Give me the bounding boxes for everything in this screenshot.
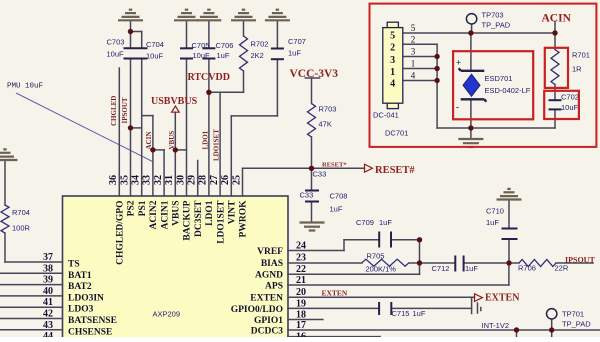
svg-text:CHGLED/GPO: CHGLED/GPO <box>116 201 126 265</box>
svg-text:1: 1 <box>390 67 395 78</box>
svg-text:R702: R702 <box>251 40 269 49</box>
svg-text:22R: 22R <box>555 264 569 273</box>
svg-text:CHSENSE: CHSENSE <box>68 327 112 337</box>
svg-text:1: 1 <box>411 59 416 69</box>
svg-text:20: 20 <box>296 287 306 298</box>
svg-text:IPSOUT: IPSOUT <box>565 256 595 265</box>
svg-text:43: 43 <box>43 320 53 331</box>
svg-text:-: - <box>456 102 459 112</box>
svg-text:10uF: 10uF <box>107 50 125 59</box>
svg-text:10uF: 10uF <box>193 51 211 60</box>
svg-text:TS: TS <box>68 260 80 270</box>
svg-text:41: 41 <box>43 297 53 308</box>
svg-text:RESET#: RESET# <box>375 165 415 176</box>
svg-text:39: 39 <box>43 275 53 286</box>
svg-text:37: 37 <box>43 252 53 263</box>
svg-text:DC-041: DC-041 <box>373 111 399 120</box>
svg-text:TP703: TP703 <box>482 11 504 20</box>
svg-text:4: 4 <box>411 71 416 81</box>
svg-text:AXP209: AXP209 <box>153 310 181 319</box>
svg-text:40: 40 <box>43 286 53 297</box>
svg-text:+: + <box>456 58 461 68</box>
svg-text:C710: C710 <box>486 207 504 216</box>
svg-text:LDO1: LDO1 <box>205 200 215 226</box>
svg-text:18: 18 <box>296 310 306 321</box>
svg-text:EXTEN: EXTEN <box>322 289 348 298</box>
svg-text:VINT: VINT <box>228 200 238 224</box>
svg-text:LDO1: LDO1 <box>202 130 210 149</box>
svg-text:R703: R703 <box>319 105 337 114</box>
svg-text:1uF: 1uF <box>379 218 392 227</box>
svg-text:CHGLED: CHGLED <box>110 96 118 126</box>
svg-text:1uF: 1uF <box>217 51 230 60</box>
svg-text:IPSOUT: IPSOUT <box>121 97 129 123</box>
svg-text:1uF: 1uF <box>288 49 301 58</box>
svg-text:34: 34 <box>131 175 142 185</box>
svg-text:ACIN: ACIN <box>542 13 572 25</box>
svg-text:C703: C703 <box>107 38 125 47</box>
svg-text:2: 2 <box>390 43 395 54</box>
svg-text:32: 32 <box>153 175 164 185</box>
svg-text:PWROK: PWROK <box>239 200 249 238</box>
svg-text:35: 35 <box>119 175 130 185</box>
svg-text:BACKUP: BACKUP <box>183 200 193 240</box>
svg-text:100R: 100R <box>12 224 31 233</box>
svg-text:EXTEN: EXTEN <box>250 294 283 304</box>
svg-text:BATSENSE: BATSENSE <box>68 316 117 326</box>
svg-text:ESD-0402-LF: ESD-0402-LF <box>485 86 531 95</box>
svg-text:R701: R701 <box>572 51 590 60</box>
svg-text:R705: R705 <box>367 252 385 261</box>
svg-text:PMU 10uF: PMU 10uF <box>7 83 43 91</box>
svg-text:DCDC3: DCDC3 <box>251 327 283 337</box>
svg-text:RESET*: RESET* <box>322 162 347 169</box>
svg-text:26: 26 <box>220 175 231 185</box>
svg-text:C704: C704 <box>146 40 164 49</box>
svg-text:21: 21 <box>296 275 306 286</box>
svg-text:47K: 47K <box>319 120 332 129</box>
svg-text:C712: C712 <box>432 264 450 273</box>
svg-text:LDO1SET: LDO1SET <box>216 200 226 244</box>
svg-text:1uF: 1uF <box>330 205 343 214</box>
svg-text:R704: R704 <box>12 208 30 217</box>
svg-text:10uF: 10uF <box>561 103 579 112</box>
svg-text:25: 25 <box>231 175 242 185</box>
svg-text:BAT2: BAT2 <box>68 282 92 292</box>
svg-text:27: 27 <box>209 175 220 185</box>
svg-text:1R: 1R <box>572 65 582 74</box>
svg-text:TP_PAD: TP_PAD <box>482 21 511 30</box>
svg-text:ACIN2: ACIN2 <box>149 200 159 229</box>
svg-text:33: 33 <box>142 175 153 185</box>
svg-text:EXTEN: EXTEN <box>485 293 520 304</box>
svg-text:16: 16 <box>296 331 306 337</box>
svg-text:C705: C705 <box>192 41 210 50</box>
svg-text:GPIO1: GPIO1 <box>254 316 283 326</box>
svg-text:10uF: 10uF <box>146 52 164 61</box>
svg-text:BIAS: BIAS <box>261 259 283 269</box>
svg-text:200K/1%: 200K/1% <box>366 265 397 274</box>
svg-text:AGND: AGND <box>255 271 283 281</box>
svg-text:C715: C715 <box>392 309 410 318</box>
svg-text:23: 23 <box>296 253 306 264</box>
svg-text:24: 24 <box>296 241 306 252</box>
svg-text:APS: APS <box>265 282 283 292</box>
svg-text:LDO3: LDO3 <box>68 305 94 315</box>
svg-text:R706: R706 <box>518 264 536 273</box>
svg-text:TP701: TP701 <box>562 310 584 319</box>
svg-text:USBVBUS: USBVBUS <box>151 96 198 107</box>
svg-text:PS1: PS1 <box>138 200 148 216</box>
svg-text:1uF: 1uF <box>465 264 478 273</box>
svg-text:VBUS: VBUS <box>172 201 182 226</box>
svg-text:C33: C33 <box>300 191 314 200</box>
svg-text:1uF: 1uF <box>413 309 426 318</box>
svg-text:19: 19 <box>296 298 306 309</box>
svg-text:28: 28 <box>198 175 209 185</box>
svg-text:42: 42 <box>43 309 53 320</box>
svg-text:3: 3 <box>411 47 416 57</box>
svg-text:36: 36 <box>108 175 119 185</box>
svg-text:BAT1: BAT1 <box>68 271 92 281</box>
svg-text:3: 3 <box>390 55 395 66</box>
svg-text:PS2: PS2 <box>127 200 137 216</box>
svg-text:38: 38 <box>43 263 53 274</box>
svg-text:5: 5 <box>411 23 416 33</box>
svg-text:C708: C708 <box>330 192 348 201</box>
svg-text:2: 2 <box>411 34 416 44</box>
svg-text:C33: C33 <box>313 170 327 179</box>
svg-text:5: 5 <box>390 31 395 42</box>
svg-text:DC701: DC701 <box>385 129 408 138</box>
svg-text:2K2: 2K2 <box>251 51 264 60</box>
svg-text:31: 31 <box>164 175 175 185</box>
svg-text:ACIN: ACIN <box>145 132 153 150</box>
svg-text:LDO1SET: LDO1SET <box>213 129 221 161</box>
svg-text:C709: C709 <box>356 218 374 227</box>
svg-text:ACIN1: ACIN1 <box>160 200 170 229</box>
svg-text:INT-1V2: INT-1V2 <box>482 321 510 330</box>
svg-text:VCC-3V3: VCC-3V3 <box>290 68 339 80</box>
svg-text:TP_PAD: TP_PAD <box>562 320 591 329</box>
svg-text:22: 22 <box>296 264 306 275</box>
svg-text:C702: C702 <box>561 93 579 102</box>
svg-text:ESD701: ESD701 <box>485 74 513 83</box>
svg-text:DC3SET: DC3SET <box>194 200 204 237</box>
svg-text:1uF: 1uF <box>486 218 499 227</box>
svg-text:LDO3IN: LDO3IN <box>68 293 104 303</box>
svg-text:RTCVDD: RTCVDD <box>188 72 230 83</box>
svg-text:VBUS: VBUS <box>168 131 176 150</box>
svg-text:VREF: VREF <box>257 247 283 257</box>
svg-text:44: 44 <box>43 331 53 337</box>
svg-text:GPIO0/LDO: GPIO0/LDO <box>231 305 283 315</box>
svg-text:17: 17 <box>296 320 306 331</box>
svg-text:C706: C706 <box>216 41 234 50</box>
svg-text:C707: C707 <box>288 37 306 46</box>
svg-text:29: 29 <box>187 175 198 185</box>
svg-text:4: 4 <box>390 79 395 90</box>
svg-text:30: 30 <box>175 175 186 185</box>
